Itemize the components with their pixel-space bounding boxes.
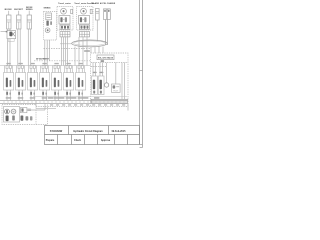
pilot wire 4 (102, 63, 104, 76)
title block outline (45, 126, 140, 145)
return line above band (33, 96, 91, 98)
valve module V4 (42, 63, 46, 64)
travel2 side port (90, 9, 92, 13)
pump valve A (21, 108, 27, 113)
pilot inner dashed (91, 62, 128, 64)
wire bucket rod (18, 11, 20, 15)
wire travel1 down (67, 37, 69, 66)
title r2 divider 127.5 (127, 135, 129, 145)
pilot label box (97, 55, 114, 60)
wire swivel R2 (94, 47, 96, 53)
travel2 spool A (80, 17, 82, 22)
travel2 gb v3 (86, 32, 88, 37)
piston BOOM b (7, 21, 11, 23)
svg-text:ACCEL CHANGE: ACCEL CHANGE (100, 2, 116, 5)
pilot manifold hatched band (91, 99, 128, 103)
manifold top edge (0, 65, 91, 67)
wire into swivel left (60, 43, 72, 45)
piston BOOMSWING b (27, 21, 31, 23)
svg-text:Check: Check (74, 140, 82, 142)
pump out wire 1 (27, 109, 45, 111)
collector ticks (3, 101, 5, 104)
travel2 gb v1 (81, 32, 83, 37)
title r2 divider 57.5 (57, 135, 59, 145)
travel2 gearbox (80, 32, 90, 37)
title r2 divider 84.5 (84, 135, 86, 145)
pilot valve label 1 (93, 72, 97, 73)
travel1 brake valve block (59, 16, 70, 25)
valve boom arrowhead (6, 31, 8, 33)
svg-text:SWING: SWING (43, 8, 50, 10)
pump spring a (28, 108, 32, 110)
pilot dashed line 2 (34, 60, 90, 62)
pilot wire 1 (92, 63, 94, 76)
travel2 dashed box (77, 7, 94, 31)
under band tick labels (50, 104, 53, 105)
rod BUCKET (18, 22, 20, 29)
pilot wire 6 (121, 63, 123, 100)
wire swing A (44, 40, 46, 66)
travel1 cb mark1 (61, 26, 63, 29)
valve module V5 (54, 63, 58, 64)
accel mark B (108, 10, 110, 12)
svg-text:M: M (13, 111, 15, 114)
border outer right (142, 0, 144, 148)
valve boom X b (12, 32, 15, 36)
swing assembly dashed box (44, 12, 57, 41)
pump inner rect (4, 107, 20, 123)
valve boom spool (9, 32, 12, 37)
wire swivel R4 (102, 47, 104, 53)
valve module V6 (66, 63, 70, 64)
wire swivel L1 below (74, 47, 76, 66)
pump filter mark (21, 116, 24, 121)
svg-text:Prepare: Prepare (46, 140, 55, 142)
svg-text:SY9C8HW: SY9C8HW (50, 129, 63, 133)
pump unit dashed box (2, 105, 36, 125)
wire boom B (9, 39, 11, 66)
pump tank mark 2 (30, 116, 32, 120)
svg-text:BOOM: BOOM (5, 9, 12, 11)
wire boomswing B (30, 29, 32, 66)
swing brake valve (46, 13, 52, 20)
wire accel 1 (105, 20, 107, 46)
valve module V3 (30, 63, 34, 64)
svg-text:BLADE: BLADE (92, 2, 100, 5)
pilot tail wire (127, 103, 129, 110)
wire accel 2 (106, 20, 108, 46)
swing relief spool (46, 21, 48, 26)
pump mark M lower (12, 116, 15, 121)
svg-text:ATTACHMENT: ATTACHMENT (36, 57, 50, 60)
wire swing B (46, 40, 48, 66)
wire bucket B (19, 29, 21, 66)
valve module V1 (6, 63, 10, 64)
swing relief spool 2 (50, 21, 52, 25)
accel mark A (104, 10, 106, 12)
travel2 cb mark3 (87, 26, 89, 29)
swing brake mark b (47, 16, 51, 18)
pilot pressure valve (112, 84, 121, 92)
pilot valve mark blob (113, 85, 116, 88)
travel2 arrow (83, 19, 84, 21)
accel top bar (104, 8, 111, 10)
svg-text:PILOT: PILOT (113, 90, 118, 92)
border corner inner bottom (140, 144, 143, 146)
swing motor circle (45, 28, 50, 33)
wire boom pilot left (1, 31, 8, 33)
travel1 counterbalance (60, 25, 70, 29)
pump circle P1 (5, 109, 10, 114)
valve module V7 (78, 63, 82, 64)
wire (7, 29, 9, 31)
travel1 motor circle (61, 8, 67, 14)
travel1 gb v3 (67, 32, 69, 37)
svg-text:Hydraulic Circuit Diagram: Hydraulic Circuit Diagram (73, 130, 102, 133)
travel1 cb mark2 (64, 26, 66, 29)
pump out wire 2 (36, 107, 56, 109)
piston BUCKET b (17, 21, 21, 23)
travel2 spool B (84, 17, 86, 22)
piston BOOMSWING a (27, 19, 31, 21)
pump valve A mark (21, 108, 23, 111)
swivel joint inner (74, 41, 106, 46)
wire boomswing A (27, 29, 29, 66)
blade cylinder body (96, 9, 100, 21)
travel2 cb mark2 (84, 26, 86, 29)
pilot valve PV1 (92, 76, 98, 95)
pilot under-label mark (101, 60, 105, 62)
wire blade (96, 20, 98, 41)
border centerline tick (140, 70, 143, 72)
cylinder BOOM body (7, 15, 11, 29)
travel1 dashed box (57, 7, 73, 31)
title r2 divider 97.5 (97, 135, 99, 145)
valve module V2 (18, 63, 22, 64)
travel1 gb v1 (62, 32, 64, 37)
valve block boom counterbalance (7, 31, 16, 39)
pump tank mark (26, 116, 29, 120)
wire travel1 down (65, 37, 67, 66)
accumulator circle (104, 83, 108, 87)
pilot wire 8 (115, 63, 117, 84)
travel1 cb mark3 (67, 26, 69, 29)
collector port labels (48, 97, 53, 98)
travel1 side port (71, 9, 73, 13)
pilot wire 3 (99, 63, 101, 76)
wire swivel R3 (98, 47, 100, 53)
accel cyl B (107, 9, 110, 20)
travel1 spool A (60, 17, 62, 22)
wire boom rod (8, 11, 10, 15)
wire swivel L2 (78, 37, 80, 66)
title r1 divider b (108, 126, 110, 135)
svg-text:Travel_motor: Travel_motor (58, 2, 71, 5)
swing motor mark (47, 29, 49, 31)
travel1 gb v2 (64, 32, 66, 37)
svg-text:Approve: Approve (101, 139, 111, 142)
pilot return line above band (91, 96, 127, 98)
wire travel1 down (61, 37, 63, 66)
pump area dashed bottom ext (36, 124, 48, 126)
travel2 cb mark1 (81, 26, 83, 29)
accel cyl A (104, 9, 107, 20)
travel1 gb mid (60, 33, 70, 35)
title mid line (45, 134, 140, 136)
rod BOOM (8, 22, 10, 29)
rod BOOMSWING (28, 22, 30, 29)
pilot wire 7 (124, 63, 126, 100)
travel2 motor mark (83, 10, 85, 12)
wire boom A (7, 39, 9, 66)
pump riser a (44, 103, 46, 110)
pilot valve PV2 (98, 76, 104, 95)
collector bottom (0, 102, 128, 104)
travel2 counterbalance (80, 25, 90, 29)
pump dark block (6, 116, 9, 122)
wire swivel L4 (86, 37, 88, 66)
travel1 arrow (63, 19, 64, 21)
pump spring b (28, 110, 32, 112)
travel2 brake valve block (79, 16, 90, 25)
blade piston b (96, 13, 99, 15)
pilot inner dashed 2 (91, 66, 106, 68)
piston BOOM a (7, 19, 11, 21)
pilot wire 5 (106, 63, 108, 83)
svg-text:09-Feb-2015: 09-Feb-2015 (112, 130, 126, 133)
collector top (0, 100, 128, 102)
pilot valve label 2 (99, 72, 103, 73)
wire swivel R1 (90, 47, 92, 53)
cylinder BUCKET body (17, 15, 21, 29)
travel1 motor mark (63, 10, 65, 12)
title r2 divider 71.5 (71, 135, 73, 145)
piston BUCKET a (17, 19, 21, 21)
wire boomswing rod (28, 11, 30, 15)
wire travel1 down (63, 37, 65, 66)
pilot valve mark line (116, 86, 119, 88)
title r2 divider 114.5 (114, 135, 116, 145)
travel2 motor circle (81, 8, 87, 14)
return dashed bus (36, 106, 91, 108)
travel1 gearbox (60, 32, 70, 37)
travel1 spool B (65, 17, 67, 22)
wire swivel L3 (82, 37, 84, 66)
label swivel joint (84, 50, 90, 52)
pump area dashed divider (47, 105, 49, 125)
pump mark P1 (6, 110, 8, 113)
travel2 gb v2 (84, 32, 86, 37)
travel2 gb mid (80, 33, 90, 35)
swivel joint ellipse (72, 40, 108, 47)
valve boom X a (12, 32, 15, 36)
valve boom lower ext (8, 39, 14, 42)
pilot box dashed (91, 53, 129, 107)
swing brake mark a (47, 14, 51, 16)
pump motor circle (11, 109, 16, 114)
pump riser b (35, 101, 37, 107)
blade piston a (96, 11, 99, 13)
wire (9, 29, 11, 31)
title r1 divider a (68, 126, 70, 135)
cylinder BOOMSWING body (27, 15, 31, 29)
pilot wire 2 (95, 63, 97, 76)
wire bucket A (17, 29, 19, 66)
pilot dashed line 1 (44, 48, 92, 50)
svg-text:SOL.CHG VALVE: SOL.CHG VALVE (98, 57, 114, 60)
border inner right (139, 0, 141, 145)
wire swing drain (49, 40, 51, 61)
border outer bottom stub (140, 147, 143, 149)
